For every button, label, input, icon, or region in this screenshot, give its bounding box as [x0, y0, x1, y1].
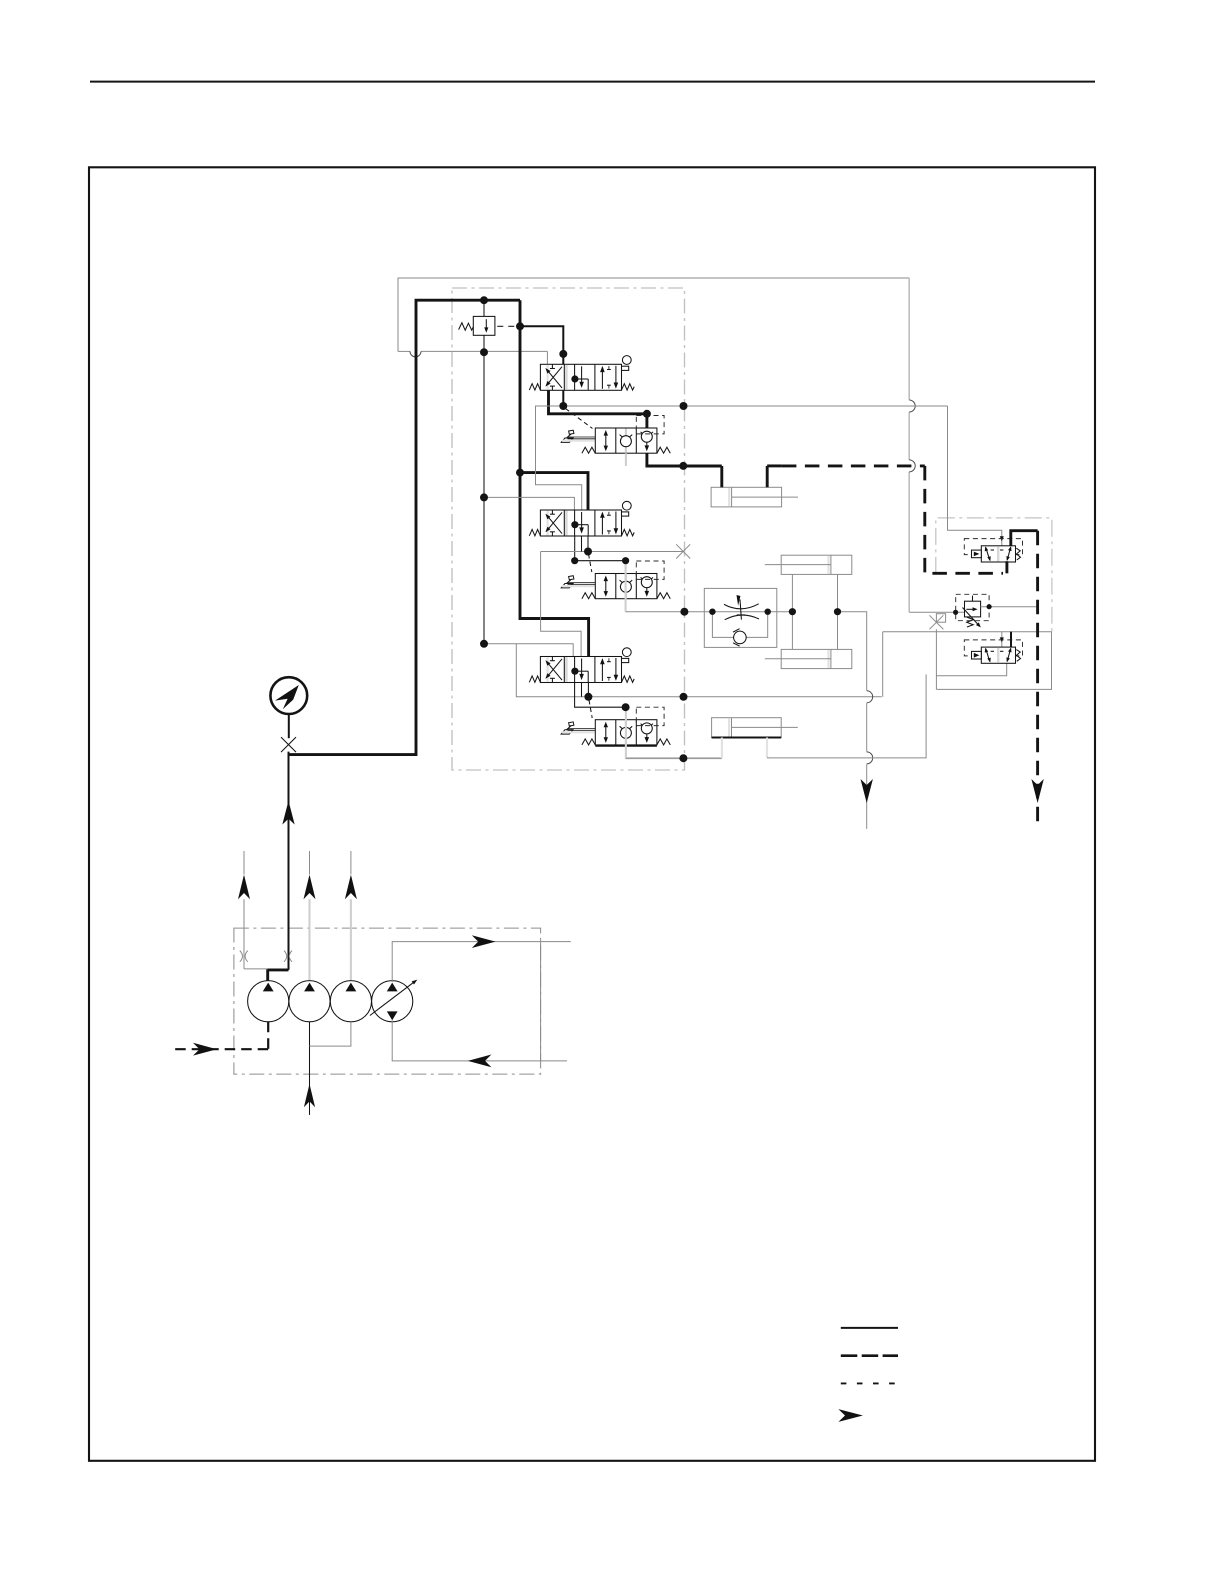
valve manifold dash-dot enclosure — [452, 288, 685, 770]
wire V1 work line through check block to cylinder C1 — [647, 414, 722, 466]
CB3 thick base edge — [595, 745, 657, 747]
wire V1 B-port to check block — [549, 390, 647, 414]
wire pressure riser P — [520, 300, 589, 661]
shaft couplings — [240, 951, 243, 962]
wire C2 rod ports — [837, 574, 839, 649]
wire CB2 mid port riser — [625, 561, 627, 612]
legend dotted line — [841, 1382, 898, 1384]
wire tank return header top — [398, 278, 909, 351]
header rule — [90, 81, 1095, 83]
wire V2 A-port down — [574, 536, 576, 561]
pump P3 — [330, 981, 371, 1022]
wire V2 B-port to plug — [587, 536, 589, 552]
wire tank branch to valve V3 T-port — [484, 644, 573, 657]
wire V3 cascade drain — [581, 683, 583, 697]
wire CB3 mid port to cylinder C3 — [626, 707, 722, 758]
pilot line CB3 — [589, 700, 592, 718]
wire C1 rod port — [766, 466, 769, 487]
wire V3 B-port to tank run — [587, 683, 589, 697]
test port plug X2 — [936, 614, 945, 623]
flow arrow pump delivery — [282, 801, 294, 825]
wire V2 cascade to valve V3 — [581, 536, 583, 552]
wire V1 P-port from relief junction — [520, 326, 563, 364]
solenoid valve sub-plate enclosure — [936, 518, 1052, 631]
wire P4 control loop — [392, 942, 571, 982]
pressure gauge G — [270, 677, 307, 714]
legend dashed line — [841, 1354, 898, 1357]
wire solenoid feed bus — [883, 631, 1052, 633]
wire X2 drop — [935, 629, 937, 689]
plugged outlet X1 — [676, 544, 690, 558]
solenoid valve SV2 — [964, 640, 1022, 663]
wire C3 rod port to solenoid loop — [766, 738, 768, 758]
wire relief valve feed — [483, 300, 485, 316]
pump unit dash-dot enclosure — [234, 928, 541, 1074]
wire brake pilot line (dashed) to solenoid station — [782, 464, 925, 467]
cylinder C3 — [712, 718, 782, 738]
wire relief valve drain riser — [483, 335, 485, 644]
wire CB1 mid port — [625, 453, 627, 466]
wire P branch to valve V2 — [520, 473, 588, 515]
gauge test coupling X3 — [281, 737, 296, 752]
wire V3 A-port down — [575, 683, 626, 708]
pressure reducing valve PR — [956, 594, 989, 620]
4/3 directional control valve V2 — [529, 501, 634, 536]
wire loop right leg — [936, 632, 1051, 690]
wire SV1 drain stub — [1005, 561, 1008, 573]
solenoid valve SV1 — [964, 539, 1022, 562]
variable pump P4 — [372, 981, 413, 1022]
wire pump delivery riser — [288, 752, 290, 970]
wire pump 2 outlet — [308, 899, 310, 980]
4/3 directional control valve V3 — [529, 648, 634, 683]
wire solenoid SV2 drain loop — [936, 663, 1006, 676]
relief valve RV — [473, 316, 495, 335]
pilot-operated check valve block CB2 — [561, 561, 670, 599]
wire V1 A-port down — [562, 390, 564, 406]
pilot-operated check valve block CB3 — [561, 707, 670, 745]
wire tank line to valve V1 T-port — [398, 350, 410, 352]
C3 thick base edge — [712, 737, 782, 739]
pilot line CB2 — [589, 554, 592, 572]
wire V1 A sensing line to right — [563, 405, 947, 407]
pilot-operated check valve block CB1 — [561, 416, 670, 454]
wire pump suction — [309, 1022, 311, 1115]
wire SV2 inlet stub (thick) — [1010, 632, 1012, 647]
wire gauge stem — [288, 714, 290, 738]
cylinder C2a — [781, 555, 852, 574]
flow control valve FC with bypass check — [704, 588, 777, 647]
wire C3 piston port — [721, 738, 723, 759]
legend flow arrow — [838, 1409, 863, 1422]
pilot line CB1 — [566, 409, 593, 429]
wire C1 piston port — [720, 466, 723, 487]
drain line arrows above pump — [243, 851, 245, 874]
wire V1 A cascade to valve V2 — [536, 406, 582, 510]
wire C2 return to tank — [838, 612, 867, 691]
wire tank return bottom run — [516, 644, 881, 697]
flow arrow case drain — [193, 1043, 217, 1056]
wire PR outlet — [981, 606, 1038, 608]
cylinder C1 — [711, 487, 782, 507]
cylinder C2b — [781, 649, 852, 668]
wire gauge-line sensing drop — [908, 278, 910, 400]
wire tank branch to valve V2 T-port — [484, 497, 574, 510]
wire C2 piston ports — [791, 574, 793, 649]
4/3 directional control valve V1 — [529, 356, 634, 391]
figure border frame — [89, 167, 1095, 1461]
wire SV1 outlet (thick) — [1011, 531, 1038, 546]
pump P1 — [248, 981, 289, 1022]
wire SV2 pilot stub — [1001, 632, 1003, 651]
pump P2 — [289, 981, 330, 1022]
junction dots — [480, 296, 488, 304]
wire pump pressure line to gauge — [289, 300, 521, 754]
tank return arrow T1 — [861, 779, 873, 803]
wire dashed tank leg T2 — [1036, 531, 1039, 829]
wire pump 1 outlet elbow — [268, 970, 289, 983]
legend solid line — [841, 1327, 898, 1329]
wire pump 3 outlet — [350, 899, 352, 980]
tank return arrow T2 — [1031, 779, 1043, 803]
wire case drain (dashed) — [267, 1022, 269, 1049]
wire FC outlet to cylinders C2 — [768, 611, 793, 613]
